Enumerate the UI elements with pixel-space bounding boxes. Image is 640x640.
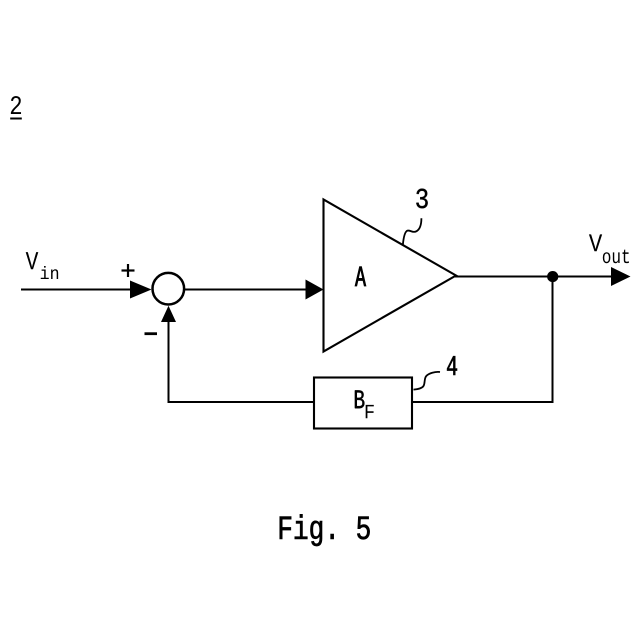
node: output junction dot — [547, 271, 558, 282]
amplifier A (triangle) — [324, 200, 457, 352]
leader line for 3 — [403, 218, 422, 244]
plus sign at summing junction input — [122, 264, 135, 277]
leader line for 4 — [414, 372, 441, 390]
feedback block BF (box) — [314, 378, 412, 429]
figure designator 2 (underlined) — [10, 96, 22, 119]
wire: feedback from output node down — [552, 277, 554, 403]
wire: input line from Vin to summing junction — [21, 289, 133, 291]
wire: summing junction to amplifier — [185, 289, 307, 291]
arrowhead Vout — [611, 267, 631, 286]
label BF — [355, 390, 374, 418]
summing junction (circle) — [153, 273, 185, 305]
arrowhead into summing junction bottom — [161, 306, 176, 322]
wire: amplifier output to Vout arrow — [455, 276, 613, 278]
wire: BF box to feedback vertical — [168, 401, 314, 403]
caption Fig. 5 — [280, 514, 370, 546]
minus sign at feedback input — [145, 332, 158, 335]
label Vin — [26, 252, 58, 279]
arrowhead into amplifier — [306, 280, 324, 300]
label Vout — [589, 234, 629, 263]
reference numeral 4 — [447, 356, 457, 375]
label A — [355, 267, 366, 286]
wire: feedback horizontal to BF box — [412, 401, 554, 403]
wire: feedback vertical up to summing junction — [168, 322, 170, 403]
reference numeral 3 — [416, 189, 427, 209]
arrowhead into summing junction — [130, 281, 152, 299]
